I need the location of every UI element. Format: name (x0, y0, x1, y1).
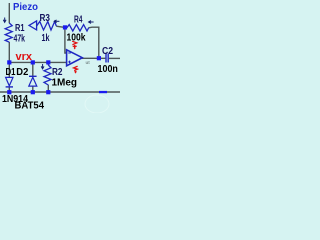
svg-text:BAT54: BAT54 (15, 101, 45, 112)
current arrow left between R3 and R4 (54, 20, 59, 23)
node junction output-feedback (97, 56, 101, 60)
resistor R3 zigzag (37, 22, 57, 31)
capacitor C2 plates (106, 54, 108, 63)
svg-text:1Meg: 1Meg (52, 78, 78, 89)
svg-text:ut: ut (86, 60, 91, 65)
svg-text:R4: R4 (74, 14, 83, 25)
node junction ground-D2 (31, 90, 35, 94)
wire ground rail (0, 91, 120, 93)
wire R1 bottom to node vrx (8, 42, 10, 62)
svg-text:100k: 100k (67, 32, 86, 44)
background (0, 0, 120, 113)
diode D2 triangle (29, 77, 37, 86)
wire op-amp output (82, 57, 105, 59)
svg-text:R3: R3 (40, 13, 51, 24)
svg-text:47k: 47k (14, 34, 26, 45)
node junction ground segment blue (99, 91, 107, 93)
op-amp plus sign (68, 61, 71, 64)
wire D2 cathode (32, 62, 34, 76)
wire net vrx horizontal (9, 61, 67, 63)
svg-text:D2: D2 (16, 67, 28, 78)
svg-text:R1: R1 (15, 23, 25, 34)
watermark circle (85, 95, 109, 113)
node junction inv input (63, 25, 67, 29)
svg-text:vrx: vrx (16, 51, 33, 63)
wire D1 anode (8, 62, 10, 77)
diode D1 triangle (6, 77, 13, 86)
wire R2 top (47, 62, 49, 65)
svg-text:D1: D1 (6, 67, 16, 78)
svg-text:Piezo: Piezo (13, 2, 38, 13)
current arrow at R2 (41, 64, 44, 69)
node junction vrx-R2 (46, 60, 50, 64)
wire C2 right to edge (109, 57, 120, 59)
node junction ground-R2 (46, 90, 50, 94)
wire D1 cathode (8, 87, 10, 92)
svg-text:C2: C2 (102, 46, 113, 57)
op-amp U1 triangle (67, 50, 83, 66)
node junction vrx-D2 (31, 60, 35, 64)
wire D2 anode (32, 86, 34, 92)
resistor R2 zigzag (44, 65, 51, 85)
wire node inv down to op-amp minus input (65, 27, 67, 53)
current arrow left after R4 (89, 21, 94, 24)
wire R4 right to feedback corner (89, 27, 99, 58)
svg-text:R2: R2 (52, 67, 63, 78)
current arrow at piezo (3, 18, 6, 23)
node junction vrx-D1 (7, 60, 11, 64)
wire R2 bottom (47, 85, 49, 92)
diode D2 cathode bar (29, 75, 37, 77)
diode D1 cathode bar (6, 86, 13, 88)
svg-text:100n: 100n (98, 63, 118, 75)
arrow port R3 left (29, 21, 37, 30)
svg-text:1k: 1k (42, 33, 50, 44)
wire R3 to node inv (56, 26, 64, 27)
wire piezo input vertical (8, 3, 10, 23)
op-amp minus sign (68, 52, 71, 54)
resistor R4 zigzag (67, 25, 89, 31)
op-amp negative supply flag (74, 66, 78, 73)
op-amp positive supply flag (72, 41, 77, 49)
resistor R1 zigzag (5, 23, 12, 42)
node junction ground-D1 (7, 90, 11, 94)
